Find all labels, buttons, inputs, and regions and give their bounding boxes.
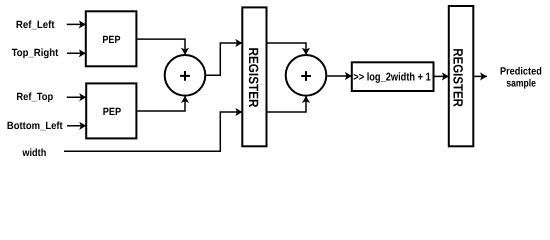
wire width to REGISTER U3 lower input [64, 112, 242, 151]
wire PEP U2 output to adder A1 bottom [137, 96, 185, 111]
wire Top_Right arrow into PEP U1 [67, 52, 86, 54]
node Predicted sample label [500, 66, 542, 90]
svg-text:Ref_Left: Ref_Left [16, 19, 55, 31]
svg-text:Predicted: Predicted [500, 66, 542, 78]
wire Bottom_Left arrow into PEP U2 [67, 125, 86, 127]
wire Ref_Left arrow into PEP U1 [67, 23, 86, 25]
block PEP U2 [86, 83, 136, 138]
svg-text:REGISTER: REGISTER [246, 48, 261, 108]
wire shifter U4 output to REGISTER U5 [435, 75, 449, 77]
svg-text:Top_Right: Top_Right [12, 47, 59, 59]
svg-text:REGISTER: REGISTER [450, 48, 465, 107]
svg-text:PEP: PEP [103, 106, 121, 118]
svg-text:width: width [22, 147, 47, 159]
adder A1 [165, 55, 206, 96]
svg-text:sample: sample [506, 78, 536, 90]
register U5 [449, 6, 474, 146]
wire REGISTER U3 lower output to adder A2 bottom [268, 96, 307, 112]
wire adder A1 output to REGISTER U3 upper input [206, 43, 242, 75]
block PEP U1 [86, 11, 137, 66]
block shifter U4 log_2width [352, 62, 434, 91]
register U3 [242, 7, 266, 146]
adder A2 [286, 55, 327, 96]
wire REGISTER U3 upper output to adder A2 top [268, 43, 307, 55]
svg-text:Bottom_Left: Bottom_Left [7, 120, 63, 132]
svg-text:Ref_Top: Ref_Top [16, 91, 53, 103]
wire Ref_Top arrow into PEP U2 [67, 96, 87, 98]
svg-text:>> log_2width + 1: >> log_2width + 1 [353, 72, 431, 84]
wire PEP U1 output to adder A1 top [137, 39, 185, 55]
wire REGISTER U5 output to Predicted sample [474, 75, 487, 77]
wire adder A2 output to shifter U4 [327, 75, 352, 77]
svg-text:PEP: PEP [102, 34, 120, 46]
